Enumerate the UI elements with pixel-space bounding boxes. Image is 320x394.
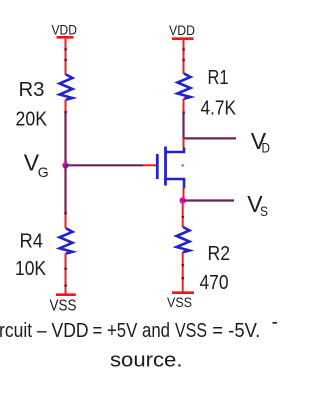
- svg-text:source.: source.: [110, 350, 183, 372]
- transistor Q1 source arm (blue): [166, 179, 185, 189]
- resistor R4 bottom lead (red): [65, 253, 67, 294]
- svg-text:VDD: VDD: [52, 22, 78, 38]
- svg-text:T: T: [272, 319, 277, 341]
- resistor R1 top lead (red): [183, 39, 185, 74]
- transistor Q1 gate bar: [156, 154, 159, 179]
- power rail VSS (left) bar symbol: [56, 293, 76, 296]
- pin tick marks on leads: [64, 48, 185, 286]
- svg-text:R4: R4: [20, 231, 44, 253]
- svg-text:10K: 10K: [15, 258, 47, 280]
- resistor R2 zigzag body: [177, 227, 190, 252]
- drain lead (red): [183, 138, 185, 148]
- resistor R4 top lead (red): [65, 213, 67, 229]
- wire source node to VS: [183, 199, 234, 201]
- resistor R3 top lead (red): [65, 37, 67, 75]
- node VG junction dot: [62, 162, 68, 168]
- svg-text:S: S: [260, 203, 268, 219]
- resistor R1 zigzag body: [178, 74, 191, 99]
- svg-text:VSS: VSS: [167, 294, 192, 310]
- wire VG node down to R4: [64, 165, 66, 214]
- svg-text:VDD: VDD: [169, 22, 195, 38]
- wire drain node to VD: [184, 137, 237, 139]
- resistor R3 zigzag body: [60, 75, 73, 100]
- svg-text:R1: R1: [208, 67, 229, 89]
- gate lead (red): [143, 164, 156, 166]
- resistor R3 bottom lead (red): [65, 100, 67, 114]
- svg-text:VSS: VSS: [175, 320, 207, 342]
- resistor R2 top lead (red): [182, 201, 184, 228]
- wire VG node to gate (plum): [66, 164, 144, 166]
- resistor R4 zigzag body: [60, 228, 73, 253]
- wire R3 to node VG: [64, 113, 66, 167]
- node VS junction dot: [180, 197, 186, 203]
- transistor Q1 bulk pin dot: [182, 164, 184, 166]
- power rail VDD (left) bar symbol: [57, 36, 74, 39]
- svg-text:470: 470: [200, 272, 229, 294]
- svg-text:rcuit – VDD: rcuit – VDD: [0, 320, 89, 342]
- transistor Q1 drain arm (blue): [166, 148, 185, 153]
- svg-text:D: D: [262, 140, 271, 156]
- svg-text:R3: R3: [19, 79, 45, 101]
- svg-text:4.7K: 4.7K: [201, 97, 237, 119]
- svg-text:= +5V and: = +5V and: [93, 320, 171, 342]
- svg-text:R2: R2: [208, 243, 231, 265]
- wire R1 to drain node: [182, 113, 184, 140]
- power rail VSS (right) bar symbol: [172, 291, 194, 294]
- svg-text:20K: 20K: [16, 108, 48, 130]
- source lead (red): [183, 188, 185, 201]
- power rail VDD (right) bar symbol: [172, 37, 194, 40]
- svg-text:VSS: VSS: [50, 298, 77, 315]
- svg-text:G: G: [38, 164, 49, 180]
- resistor R2 bottom lead (red): [182, 252, 184, 293]
- resistor R1 bottom lead (red): [183, 99, 185, 114]
- transistor Q1 channel bar: [164, 147, 167, 186]
- svg-text:= -5V.: = -5V.: [212, 320, 260, 342]
